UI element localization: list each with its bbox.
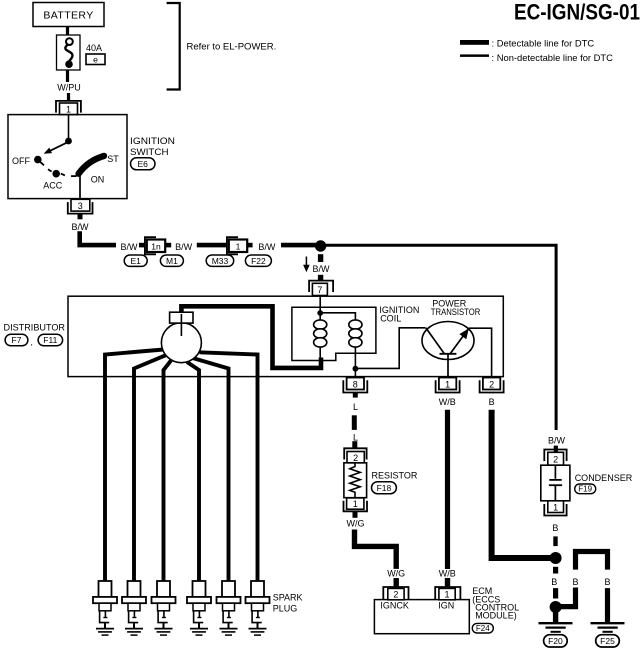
node switch common	[65, 138, 72, 145]
label IGNITION COIL	[379, 305, 419, 324]
wire conn1 into switch	[68, 115, 70, 140]
label B/W above condenser	[548, 436, 566, 446]
fuse box e	[86, 54, 105, 65]
wire stub	[139, 243, 145, 248]
wire stub below node1	[553, 567, 558, 574]
resistor zigzag	[350, 463, 360, 498]
label W/PU	[57, 83, 81, 93]
wire B/W bus from switch	[80, 231, 116, 245]
svg-text:7: 7	[317, 285, 322, 295]
wire L segment	[352, 415, 357, 430]
wire node2 branch right	[559, 588, 576, 607]
assembly box distributor/coil/transistor	[68, 296, 503, 376]
label B left leg	[572, 577, 578, 587]
inline connector 1n (E1-M1)	[145, 237, 165, 254]
coil primary winding	[314, 313, 327, 360]
wire fan line 2	[134, 355, 166, 582]
wire dash condenser to node	[553, 536, 557, 546]
pin name IGN	[438, 600, 454, 610]
svg-text:F24: F24	[476, 624, 490, 633]
svg-text:2: 2	[489, 379, 494, 389]
wire right leg to ground F25	[605, 588, 610, 622]
label B/W	[313, 264, 331, 274]
transistor emitter arrow	[451, 328, 469, 353]
svg-text:M33: M33	[212, 256, 229, 266]
distributor cap contact	[170, 312, 193, 336]
wire W/B transistor to ECM	[445, 410, 450, 569]
svg-text:MODULE): MODULE)	[475, 611, 517, 621]
svg-text:ON: ON	[91, 174, 105, 184]
legend non-detectable text	[492, 52, 614, 63]
connector ref M1	[160, 255, 183, 266]
spark plug 1	[93, 581, 117, 635]
svg-text:SWITCH: SWITCH	[130, 147, 169, 157]
coil secondary winding	[349, 320, 362, 369]
label ST	[107, 154, 119, 164]
svg-text:2: 2	[353, 453, 358, 463]
svg-text:IGNCK: IGNCK	[380, 600, 409, 610]
value 40A	[86, 43, 102, 53]
connector ref F7	[5, 334, 28, 346]
wire conn7 into coil	[319, 295, 321, 313]
connector ref E6	[131, 158, 156, 170]
wire stub above resistor conn2	[352, 441, 357, 448]
svg-text:OFF: OFF	[12, 156, 30, 166]
svg-text:Refer to EL-POWER.: Refer to EL-POWER.	[187, 42, 277, 53]
svg-text:W/PU: W/PU	[57, 83, 81, 93]
inline connector 1 (M33-F22)	[227, 237, 247, 254]
label ON	[91, 174, 105, 184]
node ground junction 1	[550, 552, 562, 564]
label IGNITION SWITCH	[130, 136, 175, 157]
label DISTRIBUTOR	[4, 323, 66, 333]
switch blade	[79, 156, 104, 174]
label W/G	[387, 569, 405, 579]
svg-text:E6: E6	[137, 159, 148, 169]
svg-text:1: 1	[553, 502, 558, 512]
wire stub above ECM conn1	[445, 578, 450, 587]
node coil output	[353, 366, 359, 372]
label B/W	[258, 242, 276, 252]
wire fan line 4	[187, 362, 199, 582]
spark plug 3	[152, 581, 176, 635]
ground F20	[539, 623, 573, 632]
transistor base bar	[440, 353, 457, 355]
connector ref F18	[372, 482, 397, 494]
svg-text:F25: F25	[600, 636, 615, 646]
svg-text:IGNITION: IGNITION	[130, 136, 175, 146]
fusible link 40A	[57, 35, 81, 70]
label W/B	[439, 569, 456, 579]
label RESISTOR	[372, 470, 418, 480]
svg-text:F11: F11	[43, 335, 57, 345]
connector 1 condenser pin	[544, 501, 566, 516]
wire stub to connector 7	[318, 275, 323, 281]
label L	[353, 432, 358, 442]
capacitor symbol	[549, 465, 562, 501]
label B right leg	[604, 577, 610, 587]
connector 3 ignition switch pin	[68, 199, 93, 213]
label SPARK PLUG	[273, 592, 303, 613]
svg-text:B: B	[572, 577, 578, 587]
svg-text:B/W: B/W	[313, 264, 331, 274]
ignition switch box E6	[8, 115, 127, 199]
svg-text:E1: E1	[130, 256, 141, 266]
svg-text:B: B	[489, 397, 495, 407]
wire stub above condenser	[554, 446, 558, 453]
svg-text:e: e	[93, 55, 98, 65]
svg-text:40A: 40A	[86, 43, 102, 53]
svg-text:: Non-detectable line for DTC: : Non-detectable line for DTC	[492, 52, 614, 63]
svg-text:,: ,	[31, 337, 33, 347]
svg-text:B/W: B/W	[72, 222, 90, 232]
wire coil to transistor base	[355, 328, 425, 369]
svg-text:1: 1	[66, 105, 71, 115]
legend detectable text	[492, 37, 595, 48]
wire node2 to ground F20	[553, 611, 558, 622]
wire stub	[247, 243, 252, 248]
svg-text:2: 2	[393, 590, 398, 600]
label B/W	[72, 222, 90, 232]
connector 1 ECM IGN pin	[435, 587, 460, 600]
svg-text:B: B	[551, 577, 557, 587]
svg-text:1: 1	[445, 379, 450, 389]
svg-text:M1: M1	[166, 256, 178, 266]
wire bus to junction	[281, 243, 316, 248]
connector ref F22	[245, 255, 271, 266]
connector ref M33	[206, 255, 234, 266]
svg-text:8: 8	[353, 379, 358, 389]
connector 1 ignition switch pin	[56, 101, 81, 115]
wire stub below junction	[318, 254, 323, 262]
wire transistor emitter out	[469, 328, 492, 377]
connector 1 resistor pin	[344, 498, 368, 511]
svg-text:B/W: B/W	[258, 242, 276, 252]
svg-text:ST: ST	[107, 154, 119, 164]
battery	[33, 3, 104, 27]
arrow to OFF	[44, 142, 69, 154]
wire bus segment	[197, 243, 227, 248]
svg-text:B: B	[604, 577, 610, 587]
svg-text:TRANSISTOR: TRANSISTOR	[431, 307, 481, 317]
connector ref F24	[472, 623, 493, 633]
connector ref F19	[575, 484, 596, 494]
wire stub below conn8	[353, 393, 358, 398]
svg-text:RESISTOR: RESISTOR	[372, 470, 418, 480]
svg-text:B/W: B/W	[175, 242, 193, 252]
node OFF	[12, 156, 44, 166]
svg-text:W/B: W/B	[439, 569, 456, 579]
label B below condenser	[552, 523, 558, 533]
wire thin bus right and down to condenser	[326, 245, 556, 430]
connector ref E1	[124, 255, 147, 266]
label B/W	[175, 242, 193, 252]
wire W/G jog to ECM	[355, 530, 397, 569]
distributor rotor circle	[161, 323, 201, 363]
wire coil to connector 8	[354, 369, 356, 378]
node junction B/W	[315, 240, 326, 251]
svg-text:SPARK: SPARK	[273, 592, 303, 602]
connector 2 resistor pin	[344, 448, 366, 463]
svg-text:1: 1	[236, 241, 241, 251]
svg-text:F19: F19	[578, 485, 592, 494]
svg-text:F7: F7	[12, 335, 22, 345]
label B	[551, 577, 557, 587]
dash ACC to blade	[61, 174, 77, 177]
connector 2 condenser pin	[544, 450, 566, 466]
svg-text:W/G: W/G	[347, 518, 365, 528]
label POWER TRANSISTOR	[431, 298, 481, 317]
resistor F18 box	[344, 463, 367, 498]
svg-text:B: B	[552, 523, 558, 533]
svg-text:B/W: B/W	[548, 436, 566, 446]
spark plug 4	[187, 581, 211, 635]
spark plug 6	[246, 581, 270, 635]
condenser F19 box	[541, 465, 570, 501]
svg-text:BATTERY: BATTERY	[43, 10, 93, 22]
legend detectable line sample	[460, 40, 489, 45]
wire B transistor to ground node	[492, 410, 551, 558]
label W/B	[439, 397, 456, 407]
svg-text:L: L	[353, 432, 358, 442]
connector 7 coil pin	[309, 281, 333, 296]
wire coil secondary to distributor	[181, 306, 321, 368]
arrow down marker	[303, 257, 310, 273]
wire stub below resistor	[353, 512, 358, 518]
connector 8 coil output pin	[343, 378, 367, 393]
svg-text:F20: F20	[548, 636, 563, 646]
connector 1 transistor pin	[436, 378, 460, 393]
svg-text:COIL: COIL	[380, 314, 401, 324]
transistor circle	[422, 322, 474, 360]
node ground junction 2	[550, 601, 562, 613]
connector ref F25	[596, 635, 620, 647]
svg-text:F22: F22	[251, 256, 266, 266]
label B/W	[121, 242, 139, 252]
ignition coil box	[292, 307, 376, 360]
svg-text:DISTRIBUTOR: DISTRIBUTOR	[4, 323, 66, 333]
ground F25	[591, 623, 625, 632]
label ECM (ECCS CONTROL MODULE)	[472, 586, 519, 621]
svg-text:EC-IGN/SG-01: EC-IGN/SG-01	[514, 0, 640, 24]
wire coil top link	[320, 313, 355, 320]
connector ref F11	[38, 334, 63, 346]
ECM box	[374, 600, 469, 634]
title EC-IGN/SG-01	[514, 0, 640, 24]
svg-text:CONDENSER: CONDENSER	[575, 473, 633, 483]
label CONDENSER	[575, 473, 633, 483]
wire fan line 3	[164, 361, 172, 583]
svg-text:3: 3	[78, 201, 83, 211]
wire transistor to connector 1	[447, 355, 449, 378]
wire fan line 1	[105, 350, 164, 583]
legend non-detectable line sample	[460, 54, 489, 57]
svg-text:F18: F18	[377, 483, 392, 493]
comma separator	[31, 337, 33, 347]
svg-text:PLUG: PLUG	[273, 603, 298, 613]
label W/G	[347, 518, 365, 528]
svg-text:1: 1	[353, 499, 358, 509]
svg-text:L: L	[353, 402, 358, 412]
node ACC	[43, 170, 63, 191]
wire fan line 6	[200, 352, 258, 582]
svg-text:B/W: B/W	[121, 242, 139, 252]
label B below transistor conn2	[489, 397, 495, 407]
node coil top	[317, 310, 323, 316]
connector 2 transistor pin	[480, 378, 504, 393]
svg-text:1: 1	[444, 590, 449, 600]
wire stub above ECM conn2	[394, 578, 399, 587]
wire stub	[165, 243, 171, 248]
connector 2 ECM IGNCK pin	[383, 587, 408, 600]
wire W/PU to connector 1	[67, 93, 70, 101]
label L	[353, 402, 358, 412]
svg-text:: Detectable line for DTC: : Detectable line for DTC	[492, 37, 595, 48]
transistor base line	[426, 328, 444, 353]
wire bridge over	[576, 552, 608, 570]
svg-text:ACC: ACC	[43, 181, 63, 191]
spark plug 5	[217, 581, 241, 635]
wire fan line 5	[194, 358, 229, 582]
connector ref F20	[544, 635, 568, 647]
wire fuse to W/PU label	[66, 70, 69, 82]
svg-text:W/G: W/G	[387, 569, 405, 579]
wire stub below conn3	[78, 214, 83, 220]
svg-text:1n: 1n	[151, 241, 161, 251]
bracket Refer to EL-POWER	[167, 3, 277, 90]
svg-text:2: 2	[553, 455, 558, 465]
spark plug 2	[122, 581, 146, 635]
svg-text:IGN: IGN	[438, 600, 454, 610]
wire stub above node2	[553, 588, 558, 598]
wire blade to connector 3	[79, 175, 81, 199]
wire battery to fuse	[66, 27, 69, 36]
svg-text:W/B: W/B	[439, 397, 456, 407]
dash OFF to ACC	[48, 169, 52, 171]
pin name IGNCK	[380, 600, 409, 610]
